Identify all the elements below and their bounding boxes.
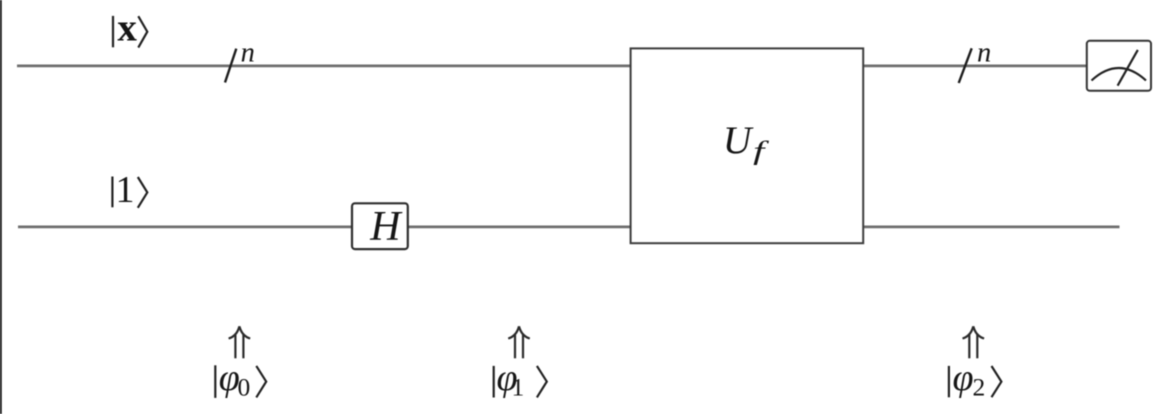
svg-text:0: 0 (238, 372, 251, 401)
svg-text:H: H (369, 204, 403, 250)
svg-text:φ: φ (953, 357, 974, 399)
svg-text:n: n (977, 37, 991, 68)
svg-text:1: 1 (512, 372, 525, 401)
svg-text:2: 2 (973, 372, 986, 401)
svg-text:x: x (117, 7, 137, 50)
svg-text:n: n (241, 37, 255, 68)
svg-text:1: 1 (116, 169, 135, 211)
svg-text:U: U (723, 118, 754, 162)
